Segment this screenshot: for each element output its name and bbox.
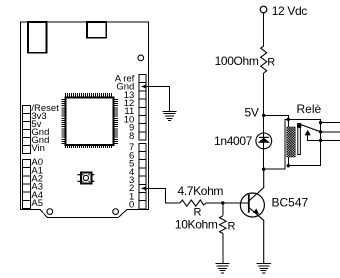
relay terminal stub bottom: [321, 139, 340, 141]
svg-text:12 Vdc: 12 Vdc: [272, 4, 308, 18]
svg-text:8: 8: [129, 131, 134, 142]
wire Gnd pin to ground: [142, 87, 170, 112]
resistor R 10Kohm: [220, 216, 227, 234]
diode D1 1n4007 circle: [256, 133, 272, 149]
svg-text:R: R: [228, 221, 236, 233]
transistor collector lead: [249, 169, 264, 201]
node relay terminal middle: [319, 130, 322, 133]
node relay bottom-left: [287, 164, 290, 167]
microcontroller U1 QFP teeth: [61, 93, 118, 148]
supply terminal 12 Vdc: [260, 6, 267, 13]
right header digital pin boxes upper: [139, 75, 146, 141]
wire terminal to 100Ohm: [263, 13, 265, 46]
node diode bottom junction: [262, 168, 265, 171]
relay terminal stub top: [321, 122, 340, 124]
svg-text:A5: A5: [31, 198, 43, 209]
svg-text:5V: 5V: [245, 105, 259, 119]
ground GND1: [162, 111, 176, 120]
transistor emitter lead: [249, 207, 264, 263]
emitter arrow: [253, 209, 259, 215]
relay K1 case box: [288, 120, 320, 166]
wire 100Ohm to 5V node: [263, 73, 265, 133]
node base junction: [221, 201, 224, 204]
svg-text:BC547: BC547: [272, 196, 309, 210]
relay pivot square: [297, 123, 301, 128]
svg-text:R: R: [267, 57, 275, 69]
ground GND3: [257, 264, 271, 273]
microcontroller U1 body: [66, 98, 114, 146]
svg-text:100Ohm: 100Ohm: [215, 54, 259, 68]
wire 10K to ground: [222, 234, 224, 264]
left power pin labels: [31, 103, 59, 154]
wire node to 10K resistor: [222, 203, 224, 216]
relay blade: [301, 125, 320, 132]
left header power pin boxes: [23, 105, 31, 153]
transistor base bar: [248, 194, 250, 212]
svg-text:10Kohm: 10Kohm: [175, 218, 218, 232]
right header digital pin boxes lower: [139, 143, 146, 209]
node relay terminal top: [319, 121, 322, 124]
wire pin 2 to base resistor: [142, 188, 181, 203]
relay terminal stub middle: [321, 131, 340, 133]
relay armature bar: [298, 127, 301, 154]
mounting hole bottom-left: [47, 209, 53, 215]
resistor R 4.7Kohm: [180, 200, 206, 206]
resistor R 100Ohm: [261, 46, 267, 73]
right upper pin labels: [115, 73, 135, 141]
arrow into pin 2: [142, 186, 146, 190]
arrow into Gnd pin: [142, 84, 146, 88]
relay arrow tail: [308, 135, 321, 140]
svg-text:0: 0: [129, 200, 134, 211]
wire 5V node to relay: [264, 115, 289, 119]
svg-text:4.7Kohm: 4.7Kohm: [178, 184, 224, 198]
svg-text:1n4007: 1n4007: [214, 134, 253, 148]
diode cathode bar: [259, 136, 269, 138]
Arduino board outline: [21, 22, 149, 217]
power connector: [87, 22, 106, 38]
ground GND2: [215, 264, 229, 273]
node relay top-left: [287, 118, 290, 121]
node 5V junction: [262, 114, 265, 117]
transistor Q1 BC547 circle: [240, 193, 264, 217]
svg-text:Relè: Relè: [297, 102, 322, 116]
mounting hole top-right: [138, 55, 144, 61]
reset button: [77, 173, 94, 184]
svg-text:Vin: Vin: [31, 143, 45, 154]
relay coil: [287, 127, 295, 157]
diode wire through: [263, 133, 265, 169]
diode triangle: [258, 138, 270, 143]
wire resistor to base: [206, 202, 249, 204]
mounting hole bottom-right: [113, 209, 119, 215]
relay actuation arrow: [305, 130, 311, 136]
wire coil return to collector node: [264, 120, 289, 170]
left analog pin labels: [31, 157, 43, 209]
node relay terminal bottom: [319, 139, 322, 142]
USB connector: [28, 22, 47, 53]
right lower pin labels: [129, 142, 134, 210]
left header analog pin boxes: [23, 159, 31, 208]
